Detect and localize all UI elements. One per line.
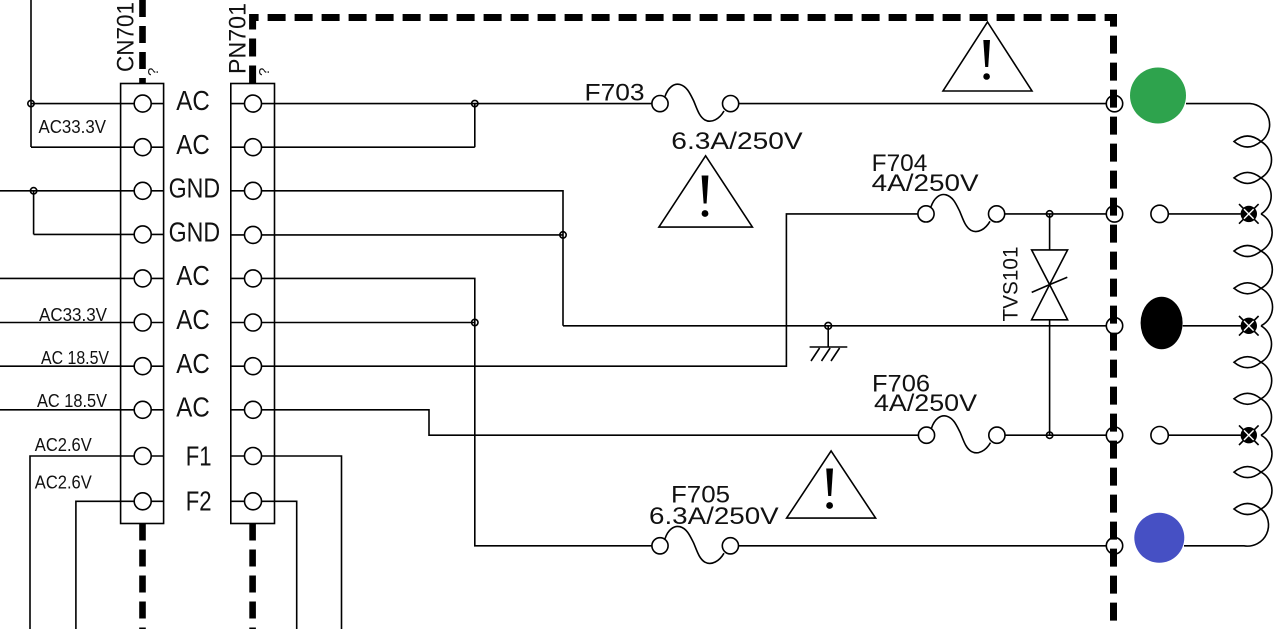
coil tap junction 3: [1239, 425, 1259, 445]
wire tap2 (from black terminal): [1183, 325, 1241, 327]
node D (GND tie): [560, 232, 566, 238]
svg-text:4A/250V: 4A/250V: [874, 390, 977, 417]
border pass-through pin row F704: [1106, 206, 1122, 222]
wire row7 AC left: [0, 365, 164, 367]
connector PN701 body: [231, 84, 275, 524]
wire row10 F2 left with drop: [76, 501, 164, 629]
fuse F704: [918, 195, 1005, 232]
svg-text:AC33.3V: AC33.3V: [39, 117, 107, 137]
ground: [810, 322, 848, 361]
wire row4 PN: [231, 234, 563, 236]
svg-text:4A/250V: 4A/250V: [872, 170, 979, 197]
wire top-left vertical to node A: [30, 0, 32, 147]
warning triangle W2: [659, 156, 753, 227]
fuse F706: [918, 416, 1005, 453]
dashed isolation border: [253, 18, 1114, 629]
node B (rows3-4 tie): [30, 188, 36, 194]
wire row6 PN: [231, 322, 475, 324]
svg-text:GND: GND: [169, 217, 221, 248]
wire row2 PN: [231, 146, 475, 148]
wire row5 AC left: [0, 277, 164, 279]
svg-text:AC2.6V: AC2.6V: [35, 435, 92, 455]
degauss coil: [1184, 104, 1273, 546]
node E (rows5-6 tie): [472, 319, 478, 325]
wire row9 F1 left with drop: [30, 456, 164, 629]
svg-text:AC: AC: [176, 260, 210, 291]
wire F704 out to border: [1005, 213, 1107, 215]
wire rows3-4 tie vertical: [33, 191, 35, 235]
wire F706 out to border: [1005, 434, 1106, 436]
svg-text:AC 18.5V: AC 18.5V: [41, 348, 109, 368]
fuse F705: [652, 526, 739, 563]
node G (TVS bottom): [1046, 432, 1052, 438]
border pass-through pin GND: [1106, 318, 1122, 334]
connector CN701 pins: [134, 95, 151, 510]
terminal green: [1130, 68, 1186, 124]
svg-text:AC: AC: [176, 348, 210, 379]
svg-text:CN701: CN701: [113, 2, 140, 72]
connector CN701 body: [121, 84, 164, 524]
coil tap junction 2: [1239, 316, 1259, 336]
svg-text:6.3A/250V: 6.3A/250V: [649, 503, 779, 530]
connector PN701 pins: [245, 95, 262, 510]
connector CN701 dashed stub top: [139, 0, 146, 84]
svg-text:AC: AC: [176, 391, 210, 422]
svg-text:AC 18.5V: AC 18.5V: [37, 391, 107, 411]
wire row4 GND left: [34, 233, 164, 235]
warning triangle W3: [787, 451, 876, 518]
coil tap junction 1: [1239, 204, 1259, 224]
border pass-through pin row1: [1106, 95, 1122, 111]
svg-text:F703: F703: [585, 80, 645, 107]
wire row2 AC left: [31, 146, 164, 148]
wire row1 AC left: [31, 103, 164, 105]
svg-text:?: ?: [256, 68, 273, 76]
wire row8 PN step down to F706: [231, 410, 919, 435]
wire row10 F2 PN drop: [231, 501, 297, 629]
node F (TVS top): [1046, 211, 1052, 217]
wire rows1-2 right tie vertical: [474, 104, 476, 148]
svg-text:AC: AC: [176, 129, 210, 160]
border pass-through pin F706: [1106, 427, 1122, 443]
wire row3 PN then down: [231, 191, 563, 326]
svg-text:AC: AC: [176, 304, 210, 335]
terminal black: [1141, 297, 1183, 350]
terminal open top: [1151, 205, 1168, 222]
border pass-through pin F705: [1106, 538, 1122, 554]
terminal blue: [1134, 513, 1184, 563]
node C (rows1-2 tie right): [472, 100, 478, 106]
wire F705 out to border: [739, 545, 1107, 547]
svg-text:F2: F2: [186, 486, 212, 517]
wire row5 PN then down to F705: [231, 278, 652, 545]
node A (rows1-2 tie): [28, 100, 34, 106]
svg-text:PN701: PN701: [225, 3, 252, 74]
svg-text:F1: F1: [186, 440, 212, 471]
wire F703 out to border: [739, 103, 1107, 105]
svg-text:TVS101: TVS101: [1000, 247, 1023, 322]
terminal open bottom: [1151, 427, 1168, 444]
svg-text:6.3A/250V: 6.3A/250V: [671, 128, 802, 155]
connector PN701 dashed stub bottom: [249, 524, 256, 629]
wire row8 AC left: [0, 409, 164, 411]
svg-text:GND: GND: [169, 172, 221, 203]
wire row9 F1 PN drop: [231, 456, 342, 629]
svg-text:AC: AC: [176, 85, 210, 116]
wire GND run right: [563, 325, 1106, 327]
wire row7 PN up to F704: [231, 214, 918, 366]
svg-text:?: ?: [145, 68, 162, 76]
fuse F703: [652, 84, 739, 121]
wire row3 GND left: [0, 190, 164, 192]
connector CN701 dashed stub bottom: [139, 524, 146, 629]
svg-text:AC2.6V: AC2.6V: [35, 472, 92, 492]
TVS101 diode: [1032, 214, 1068, 435]
warning triangle W1: [943, 22, 1032, 91]
wire tap3: [1168, 434, 1241, 436]
wire row6 AC left: [0, 322, 164, 324]
wire tap1: [1168, 213, 1241, 215]
wire row1 PN to F703: [231, 103, 652, 105]
svg-text:AC33.3V: AC33.3V: [39, 305, 107, 325]
